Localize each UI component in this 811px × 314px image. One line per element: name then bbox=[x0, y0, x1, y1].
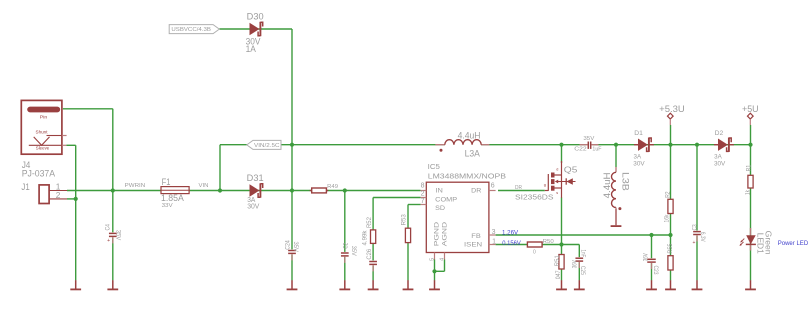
svg-text:Green: Green bbox=[764, 231, 774, 255]
svg-text:ISEN: ISEN bbox=[464, 241, 482, 248]
svg-text:R53: R53 bbox=[400, 214, 407, 226]
svg-text:D1: D1 bbox=[634, 130, 643, 137]
svg-text:IC5: IC5 bbox=[428, 162, 440, 171]
svg-text:DR: DR bbox=[471, 188, 481, 195]
svg-text:D2: D2 bbox=[715, 130, 724, 137]
svg-text:R1: R1 bbox=[745, 164, 752, 171]
svg-text:R49: R49 bbox=[327, 184, 338, 190]
svg-text:FB: FB bbox=[471, 233, 481, 240]
svg-text:7: 7 bbox=[421, 198, 425, 205]
svg-text:L3B: L3B bbox=[620, 172, 630, 191]
svg-text:+: + bbox=[107, 238, 110, 244]
svg-text:g: g bbox=[544, 183, 546, 187]
svg-text:1.85A: 1.85A bbox=[161, 193, 184, 203]
svg-text:Shunt: Shunt bbox=[36, 129, 49, 134]
svg-text:33V: 33V bbox=[162, 203, 173, 209]
svg-text:36V: 36V bbox=[643, 253, 650, 262]
svg-text:SI2356DS: SI2356DS bbox=[515, 192, 554, 201]
svg-text:1k: 1k bbox=[744, 189, 751, 195]
svg-text:30V: 30V bbox=[714, 161, 726, 168]
svg-text:30V: 30V bbox=[247, 203, 260, 210]
svg-text:USBVCC/4.3B: USBVCC/4.3B bbox=[171, 27, 211, 33]
svg-text:C25: C25 bbox=[579, 266, 586, 275]
svg-text:AGND: AGND bbox=[442, 222, 449, 247]
svg-text:R52: R52 bbox=[366, 217, 373, 228]
svg-text:30V: 30V bbox=[633, 161, 645, 168]
svg-text:R2: R2 bbox=[665, 191, 672, 198]
svg-text:L3A: L3A bbox=[465, 148, 480, 158]
svg-text:R51: R51 bbox=[554, 255, 561, 267]
svg-text:C23: C23 bbox=[652, 266, 659, 275]
svg-text:1: 1 bbox=[492, 239, 496, 246]
svg-text:D31: D31 bbox=[247, 173, 264, 183]
svg-text:+: + bbox=[692, 240, 695, 246]
svg-text:1.26V: 1.26V bbox=[502, 229, 519, 236]
svg-text:3: 3 bbox=[492, 229, 496, 236]
svg-text:1A: 1A bbox=[246, 44, 257, 54]
svg-text:Pin: Pin bbox=[40, 114, 48, 119]
svg-text:C2: C2 bbox=[343, 242, 350, 248]
svg-text:4.4uH: 4.4uH bbox=[458, 131, 481, 141]
svg-text:d: d bbox=[556, 167, 558, 171]
svg-text:+5.3U: +5.3U bbox=[659, 104, 685, 114]
svg-text:VIN: VIN bbox=[199, 183, 209, 189]
svg-text:R50: R50 bbox=[543, 239, 554, 245]
svg-text:Q5: Q5 bbox=[564, 165, 578, 174]
svg-text:6.3V: 6.3V bbox=[699, 232, 706, 242]
svg-text:0: 0 bbox=[533, 249, 536, 255]
svg-text:35V: 35V bbox=[114, 230, 121, 241]
svg-text:0.156V: 0.156V bbox=[502, 240, 521, 247]
svg-text:PJ-037A: PJ-037A bbox=[22, 169, 56, 179]
svg-text:35V: 35V bbox=[292, 242, 299, 253]
svg-text:VIN/2.5C: VIN/2.5C bbox=[254, 143, 280, 149]
svg-text:s: s bbox=[556, 191, 558, 195]
svg-text:1nF: 1nF bbox=[579, 250, 586, 258]
svg-text:D30: D30 bbox=[247, 12, 264, 22]
svg-text:PWRIN: PWRIN bbox=[125, 183, 146, 189]
svg-text:Sleeve: Sleeve bbox=[36, 146, 50, 151]
svg-text:1uF: 1uF bbox=[592, 147, 601, 153]
svg-text:PGND: PGND bbox=[433, 222, 440, 247]
svg-text:IN: IN bbox=[435, 188, 442, 195]
svg-text:J1: J1 bbox=[21, 182, 29, 192]
svg-text:4: 4 bbox=[439, 258, 445, 261]
svg-text:R55: R55 bbox=[667, 243, 674, 253]
svg-text:LM3488MMX/NOPB: LM3488MMX/NOPB bbox=[428, 171, 506, 180]
svg-text:2: 2 bbox=[56, 190, 61, 200]
svg-text:C3: C3 bbox=[691, 224, 698, 230]
svg-text:SD: SD bbox=[435, 205, 445, 212]
svg-text:4.99k: 4.99k bbox=[362, 230, 369, 246]
svg-text:16k: 16k bbox=[664, 214, 671, 223]
svg-text:35V: 35V bbox=[350, 246, 357, 257]
svg-text:DR: DR bbox=[515, 185, 522, 191]
svg-text:Power LED: Power LED bbox=[778, 240, 809, 247]
svg-text:C24: C24 bbox=[284, 240, 291, 250]
svg-text:4.4uH: 4.4uH bbox=[602, 172, 612, 198]
svg-text:5: 5 bbox=[429, 258, 435, 261]
svg-text:C4: C4 bbox=[105, 224, 112, 231]
svg-text:2: 2 bbox=[421, 191, 425, 198]
svg-text:F1: F1 bbox=[162, 177, 171, 187]
svg-text:8: 8 bbox=[421, 183, 425, 190]
svg-text:36V: 36V bbox=[571, 260, 578, 269]
svg-text:+5U: +5U bbox=[742, 104, 759, 114]
svg-text:C26: C26 bbox=[366, 248, 373, 259]
svg-text:C22: C22 bbox=[574, 147, 587, 153]
svg-text:047: 047 bbox=[555, 270, 562, 279]
svg-text:6: 6 bbox=[491, 183, 495, 190]
svg-text:35V: 35V bbox=[583, 136, 595, 142]
svg-text:COMP: COMP bbox=[435, 197, 457, 204]
